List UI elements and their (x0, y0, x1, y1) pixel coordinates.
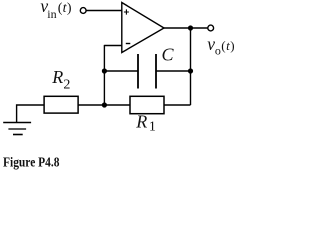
resistor R2 (44, 96, 78, 113)
wire cap left lead (104, 70, 138, 72)
wire op-amp output (164, 27, 208, 29)
label R1 (135, 112, 156, 135)
svg-text:Figure P4.8: Figure P4.8 (3, 156, 60, 171)
wire right rail down (190, 28, 192, 105)
node junction bottom (102, 102, 107, 107)
svg-text:in: in (47, 7, 56, 21)
label R2 (51, 67, 70, 93)
label v_o(t) (207, 34, 235, 57)
svg-text:R: R (135, 112, 147, 132)
svg-text:1: 1 (149, 120, 156, 135)
wire R2 to ground corner (17, 105, 44, 123)
wire bottom right segment (164, 104, 191, 106)
svg-text:o: o (215, 43, 221, 57)
svg-text:R: R (51, 67, 63, 87)
wire node to R2 (78, 104, 104, 106)
input terminal v_in (80, 8, 86, 14)
node junction left-cap (102, 68, 107, 73)
capacitor C (138, 54, 156, 89)
wire R1 to node (104, 104, 130, 106)
wire cap right lead (156, 70, 191, 72)
svg-text:(t): (t) (221, 38, 235, 53)
wire left rail down (103, 45, 105, 105)
svg-text:C: C (162, 45, 175, 65)
svg-text:(t): (t) (58, 1, 72, 16)
op-amp U1 (122, 3, 164, 53)
node junction right-cap (188, 68, 193, 73)
output terminal v_o (208, 25, 214, 31)
ground (3, 123, 31, 135)
wire vin to op-amp + input (86, 10, 122, 12)
svg-text:2: 2 (63, 77, 70, 92)
resistor R1 (130, 96, 164, 113)
wire op-amp - input feedback (104, 45, 121, 47)
node output junction (188, 25, 193, 30)
label v_in(t) (40, 0, 71, 21)
